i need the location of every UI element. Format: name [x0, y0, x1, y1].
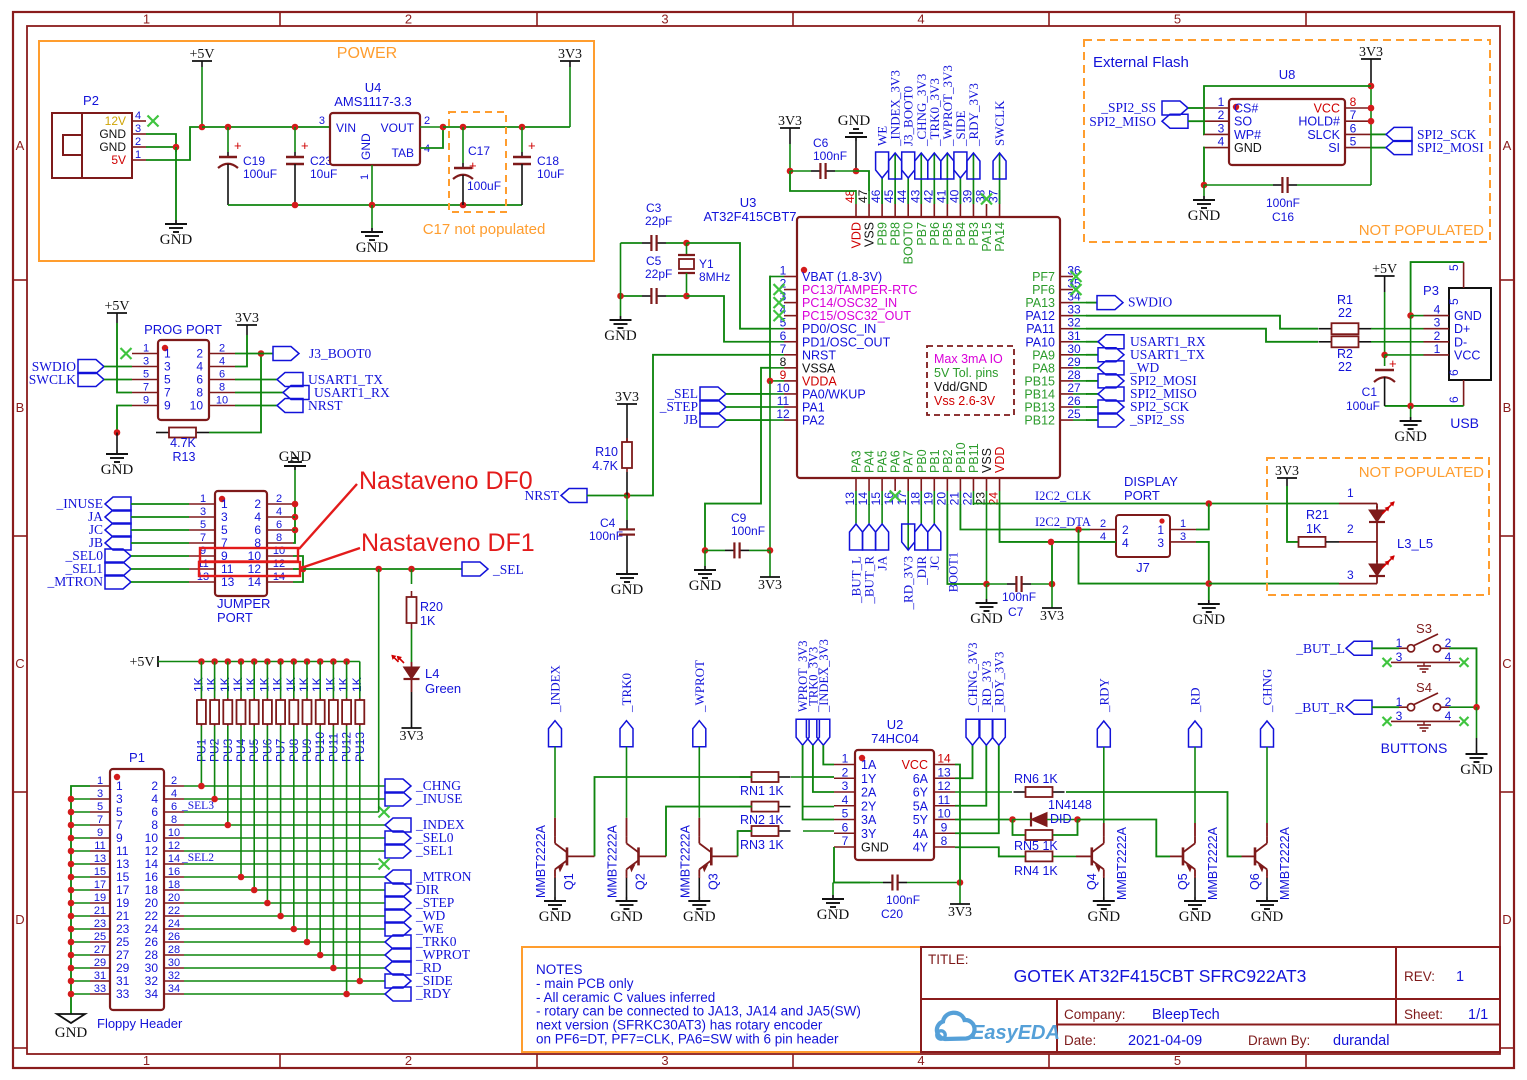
svg-text:27: 27: [94, 944, 106, 956]
svg-text:29: 29: [94, 957, 106, 969]
svg-text:NRST: NRST: [524, 488, 559, 503]
svg-text:2: 2: [171, 775, 177, 787]
svg-text:6: 6: [1350, 121, 1357, 135]
svg-text:R13: R13: [173, 450, 196, 464]
svg-text:5: 5: [200, 519, 206, 531]
svg-text:External Flash: External Flash: [1093, 54, 1189, 71]
svg-text:2A: 2A: [861, 786, 877, 800]
svg-text:6: 6: [842, 820, 849, 834]
svg-text:100uF: 100uF: [1346, 399, 1380, 413]
svg-text:PA15: PA15: [980, 222, 994, 252]
svg-text:17: 17: [94, 879, 106, 891]
svg-text:Q1: Q1: [562, 873, 576, 890]
svg-text:NRST: NRST: [308, 398, 343, 413]
svg-text:3: 3: [143, 356, 149, 368]
svg-text:AMS1117-3.3: AMS1117-3.3: [334, 94, 412, 109]
wire PROG pin 6 to USART1_TX flag: [235, 379, 277, 381]
svg-text:Q2: Q2: [634, 873, 648, 890]
resistor RN2 1K: [740, 806, 752, 808]
svg-text:4: 4: [842, 793, 849, 807]
svg-text:18: 18: [908, 492, 922, 506]
wire C5 to OSC_OUT pin 6: [687, 296, 772, 342]
wire RN1 to U2 pin 2 1Y: [791, 776, 834, 778]
U3 max ratings note box: [927, 346, 1014, 415]
3V3 under C20 node: [959, 883, 961, 905]
POWER section box: [39, 41, 594, 261]
svg-text:GND: GND: [99, 127, 126, 141]
wire P2 5V to +5V rail: [146, 127, 202, 160]
svg-text:SWCLK: SWCLK: [29, 372, 77, 387]
svg-text:3A: 3A: [861, 813, 877, 827]
svg-text:34: 34: [145, 987, 159, 1001]
svg-text:SO: SO: [1234, 115, 1252, 129]
svg-text:8: 8: [219, 382, 225, 394]
svg-text:MMBT2222A: MMBT2222A: [1206, 826, 1220, 900]
U3 right pins: [1060, 276, 1073, 278]
svg-text:10: 10: [273, 545, 285, 557]
svg-text:10uF: 10uF: [537, 167, 564, 181]
wire RN2 to Q2 base: [666, 807, 752, 857]
svg-text:1: 1: [135, 149, 141, 161]
svg-text:S4: S4: [1416, 680, 1432, 695]
connector J7: [1116, 515, 1170, 557]
svg-text:R20: R20: [420, 600, 443, 614]
svg-text:SPI2_MISO: SPI2_MISO: [1089, 114, 1156, 129]
svg-text:2: 2: [405, 12, 412, 27]
svg-text:VIN: VIN: [336, 121, 356, 135]
svg-text:P1: P1: [129, 750, 145, 765]
svg-text:5: 5: [97, 801, 103, 813]
svg-text:22: 22: [1338, 306, 1352, 320]
U4 GND pin wire down: [371, 165, 373, 205]
transistor Q1 MMBT2222A: [554, 818, 556, 837]
svg-text:3: 3: [661, 12, 668, 27]
svg-text:C7: C7: [1008, 605, 1024, 619]
svg-text:5: 5: [842, 807, 849, 821]
net flag SWCLK at pin 37: [999, 153, 1001, 204]
svg-text:_TRK0: _TRK0: [619, 673, 634, 713]
svg-text:GND: GND: [1460, 762, 1493, 778]
flags WPROT_3V3 TRK0_3V3 INDEX_3V3 above U2: [796, 719, 809, 745]
svg-text:GND: GND: [539, 909, 572, 925]
svg-text:durandal: durandal: [1333, 1033, 1389, 1049]
svg-text:VSS: VSS: [980, 448, 994, 473]
svg-text:JUMPER: JUMPER: [217, 596, 270, 611]
svg-text:15: 15: [94, 866, 106, 878]
svg-text:D: D: [1502, 912, 1511, 927]
svg-text:31: 31: [1067, 329, 1081, 343]
svg-text:VSS: VSS: [863, 222, 877, 247]
svg-text:5: 5: [1174, 12, 1181, 27]
no-connect X U3 pins 36,35: [1071, 271, 1082, 282]
svg-text:25: 25: [116, 935, 130, 949]
svg-text:Q6: Q6: [1248, 873, 1262, 890]
P1 right side net flags: [184, 785, 385, 787]
svg-text:31: 31: [94, 970, 106, 982]
wire GND pin 4: [1411, 315, 1424, 317]
svg-text:45: 45: [882, 189, 896, 203]
svg-text:7: 7: [842, 834, 849, 848]
svg-text:3V3: 3V3: [1275, 464, 1299, 479]
svg-text:1: 1: [200, 493, 206, 505]
svg-text:Green: Green: [425, 681, 461, 696]
svg-text:14: 14: [168, 853, 180, 865]
svg-text:15: 15: [869, 492, 883, 506]
svg-text:GND: GND: [356, 240, 389, 256]
svg-text:+5V: +5V: [1372, 262, 1397, 277]
svg-text:2: 2: [151, 779, 158, 793]
wire TRK0_3V3 to 2A: [813, 745, 834, 792]
svg-text:5: 5: [164, 373, 171, 387]
svg-text:8: 8: [196, 386, 203, 400]
wire _SEL down to P1 pin 6 row: [378, 569, 380, 812]
svg-text:J7: J7: [1136, 560, 1150, 575]
svg-text:PB6: PB6: [928, 222, 942, 246]
svg-text:16: 16: [145, 870, 159, 884]
LED L4: [411, 629, 413, 662]
svg-text:4: 4: [276, 506, 282, 518]
wire +5V to PROG pin 7: [117, 323, 132, 393]
svg-text:PD0/OSC_IN: PD0/OSC_IN: [802, 322, 876, 336]
svg-text:VBAT (1.8-3V): VBAT (1.8-3V): [802, 270, 882, 284]
resistor R21 1K: [1287, 486, 1299, 542]
wire PROG pin 10 to NRST flag: [235, 405, 277, 407]
wire RN1 to Q1 base: [595, 777, 753, 856]
NOTES box: [522, 947, 921, 1052]
P3 pin 5 shield top: [1463, 262, 1465, 288]
svg-text:GND: GND: [689, 578, 722, 594]
svg-text:C18: C18: [537, 154, 559, 168]
svg-text:Y1: Y1: [699, 257, 714, 271]
svg-text:Nastaveno DF0: Nastaveno DF0: [359, 467, 533, 495]
svg-text:32: 32: [145, 974, 159, 988]
U2 pin 13 6A to _CHNG_3V3 flag: [955, 745, 973, 778]
svg-text:7: 7: [116, 818, 123, 832]
svg-text:7: 7: [780, 342, 787, 356]
svg-text:PB1: PB1: [928, 449, 942, 473]
svg-text:13: 13: [937, 765, 951, 779]
svg-text:PB11: PB11: [967, 443, 981, 473]
wire VBAT pin 1 to 3V3 node: [770, 277, 771, 381]
svg-text:C: C: [1502, 656, 1511, 671]
svg-text:4: 4: [196, 360, 203, 374]
no-connect X on P2 pin 4: [148, 116, 159, 127]
svg-text:12: 12: [937, 779, 951, 793]
flags SPI2_SCK SPI2_MOSI: [1371, 133, 1386, 135]
svg-text:21: 21: [116, 909, 130, 923]
svg-text:42: 42: [921, 189, 935, 203]
svg-text:_BUT_R: _BUT_R: [1294, 700, 1345, 715]
svg-text:13: 13: [116, 857, 130, 871]
ground GND under P2: [175, 220, 177, 224]
svg-text:EasyEDA: EasyEDA: [971, 1022, 1060, 1044]
svg-text:3: 3: [1218, 121, 1225, 135]
svg-text:4: 4: [219, 356, 225, 368]
svg-text:2: 2: [1218, 108, 1225, 122]
svg-text:9: 9: [116, 831, 123, 845]
svg-text:U4: U4: [365, 80, 382, 95]
P3 pin 6 shield bottom: [1463, 380, 1465, 406]
svg-text:20: 20: [934, 492, 948, 506]
ground GND under U4: [371, 205, 373, 228]
svg-text:2: 2: [405, 1053, 412, 1068]
svg-text:11: 11: [94, 840, 105, 852]
svg-text:1K: 1K: [310, 677, 324, 692]
svg-text:PB14: PB14: [1024, 387, 1055, 401]
svg-text:2: 2: [276, 493, 282, 505]
net flag USART1_TX: [277, 373, 303, 387]
svg-text:46: 46: [869, 189, 883, 203]
svg-text:3: 3: [1157, 536, 1164, 550]
svg-text:8: 8: [171, 814, 177, 826]
svg-text:I2C2_DTA: I2C2_DTA: [1035, 515, 1091, 529]
svg-text:C19: C19: [243, 154, 265, 168]
svg-text:1: 1: [143, 1053, 150, 1068]
svg-text:3V3: 3V3: [558, 47, 582, 62]
svg-text:22: 22: [960, 492, 974, 506]
svg-text:1: 1: [1347, 486, 1354, 500]
svg-text:7: 7: [200, 532, 206, 544]
U4 output wires: [420, 126, 443, 128]
net flag SWDIO: [1086, 302, 1097, 304]
wire NRST pin 7 left: [627, 355, 771, 496]
svg-text:23: 23: [94, 918, 106, 930]
U2 GND pin 7 to C20 rail: [834, 847, 870, 883]
wire +5V rail to U4 VIN: [202, 126, 330, 128]
svg-text:PA5: PA5: [876, 450, 890, 473]
U2 pin 9 4A to _RDY_3V3 flag: [955, 745, 999, 833]
svg-text:1: 1: [97, 775, 103, 787]
svg-text:A: A: [16, 138, 25, 153]
svg-text:1: 1: [1218, 95, 1225, 109]
svg-text:HOLD#: HOLD#: [1298, 115, 1340, 129]
svg-text:+: +: [234, 138, 242, 153]
svg-text:100nF: 100nF: [731, 524, 765, 538]
svg-text:26: 26: [168, 931, 180, 943]
svg-text:RN3 1K: RN3 1K: [740, 838, 784, 852]
svg-text:C17 not populated: C17 not populated: [423, 221, 546, 238]
svg-text:D+: D+: [1454, 322, 1470, 336]
svg-text:13: 13: [94, 853, 106, 865]
svg-text:_RDY: _RDY: [1096, 677, 1111, 713]
U2 pin 11 5A to _RD_3V3 flag: [955, 745, 986, 806]
svg-text:Max 3mA IO: Max 3mA IO: [934, 352, 1003, 366]
resistor R2 22: [1319, 341, 1332, 343]
svg-text:5Y: 5Y: [913, 813, 929, 827]
svg-text:1K: 1K: [191, 677, 205, 692]
svg-text:4: 4: [171, 788, 177, 800]
wire INDEX_3V3 to 1A: [823, 745, 834, 764]
svg-text:8MHz: 8MHz: [699, 270, 730, 284]
svg-text:30: 30: [168, 957, 180, 969]
svg-text:TAB: TAB: [392, 146, 414, 160]
wire C3/C5 left to GND: [620, 243, 622, 296]
svg-text:2Y: 2Y: [861, 799, 877, 813]
svg-text:GND: GND: [1394, 429, 1427, 445]
svg-text:GND: GND: [1454, 309, 1482, 323]
svg-text:19: 19: [94, 892, 106, 904]
svg-text:3V3: 3V3: [948, 905, 972, 920]
svg-text:C5: C5: [646, 254, 662, 268]
svg-text:TITLE:: TITLE:: [928, 952, 969, 967]
resistor RN3 1K: [740, 830, 752, 832]
svg-text:14: 14: [145, 857, 159, 871]
U2 VCC pin 14 to 3V3 node: [955, 765, 960, 883]
svg-text:2: 2: [1434, 329, 1441, 343]
svg-text:8: 8: [780, 355, 787, 369]
svg-text:5: 5: [1174, 1053, 1181, 1068]
svg-text:J3_BOOT0: J3_BOOT0: [309, 346, 372, 361]
svg-text:14: 14: [856, 492, 870, 506]
svg-text:VOUT: VOUT: [381, 121, 415, 135]
ground GND flash: [1203, 185, 1205, 196]
svg-text:B: B: [16, 400, 25, 415]
svg-text:1N4148: 1N4148: [1048, 798, 1092, 812]
svg-text:2: 2: [135, 136, 141, 148]
svg-text:19: 19: [116, 896, 130, 910]
flag _RD_3V3 below U3 pin 17: [907, 504, 909, 550]
svg-text:MMBT2222A: MMBT2222A: [1278, 826, 1292, 900]
svg-text:74HC04: 74HC04: [871, 731, 919, 746]
svg-text:32: 32: [168, 970, 180, 982]
svg-text:5: 5: [1447, 264, 1461, 271]
wire _SEL net: [303, 568, 462, 570]
svg-text:6Y: 6Y: [913, 786, 929, 800]
svg-text:1: 1: [1157, 523, 1164, 537]
svg-text:BOOT1: BOOT1: [946, 552, 960, 592]
svg-text:4.7K: 4.7K: [592, 459, 618, 473]
svg-text:+5V: +5V: [189, 47, 214, 62]
svg-text:6: 6: [1447, 396, 1461, 403]
svg-text:PC14/OSC32_IN: PC14/OSC32_IN: [802, 296, 897, 310]
svg-text:PB8: PB8: [889, 222, 903, 246]
svg-text:20: 20: [145, 896, 159, 910]
svg-text:_SPI2_SS: _SPI2_SS: [1100, 100, 1156, 115]
wire J7 pin4 rail: [1051, 541, 1116, 543]
wire shield 5 to GND net: [1411, 262, 1464, 316]
svg-text:_BUT_L: _BUT_L: [1295, 641, 1345, 656]
svg-text:4: 4: [135, 110, 141, 122]
svg-text:Vdd/GND: Vdd/GND: [934, 380, 988, 394]
svg-text:MMBT2222A: MMBT2222A: [678, 824, 692, 898]
svg-text:PA10: PA10: [1025, 335, 1055, 349]
svg-text:_CHNG_3V3: _CHNG_3V3: [966, 643, 980, 713]
svg-text:1A: 1A: [861, 758, 877, 772]
svg-text:4: 4: [254, 510, 261, 524]
wire PROG pin 4 to 3V3: [235, 335, 247, 367]
svg-text:Q3: Q3: [706, 873, 720, 890]
svg-text:28: 28: [145, 948, 159, 962]
svg-text:22: 22: [145, 909, 159, 923]
svg-text:GND: GND: [101, 462, 134, 478]
svg-text:4: 4: [917, 12, 924, 27]
svg-text:_INDEX_3V3: _INDEX_3V3: [817, 639, 831, 713]
capacitor C7 100nF: [1007, 583, 1016, 585]
svg-text:NOTES: NOTES: [536, 962, 583, 977]
svg-text:PB7: PB7: [915, 222, 929, 246]
svg-text:12: 12: [168, 840, 180, 852]
resistor RN6 1K: [1014, 791, 1026, 793]
svg-text:U2: U2: [887, 717, 904, 732]
svg-text:1/1: 1/1: [1468, 1007, 1488, 1023]
wire PROG pin 8 to USART1_RX flag: [235, 392, 283, 394]
capacitor C1 100uF: [1384, 355, 1386, 366]
svg-text:16: 16: [168, 866, 180, 878]
svg-text:SWDIO: SWDIO: [1128, 295, 1172, 310]
svg-text:BleepTech: BleepTech: [1152, 1007, 1220, 1023]
svg-text:VDDA: VDDA: [802, 374, 837, 388]
wire GND to U3 VSS pin 47: [856, 171, 869, 191]
svg-text:10uF: 10uF: [310, 167, 337, 181]
svg-text:SPI2_MOSI: SPI2_MOSI: [1417, 140, 1484, 155]
svg-text:BUTTONS: BUTTONS: [1381, 740, 1448, 756]
svg-text:_RDY_3V3: _RDY_3V3: [992, 652, 1006, 713]
svg-text:C16: C16: [1272, 210, 1294, 224]
svg-text:100uF: 100uF: [467, 179, 501, 193]
svg-text:A: A: [1503, 138, 1512, 153]
svg-text:DID: DID: [1050, 812, 1072, 826]
svg-text:PF7: PF7: [1032, 270, 1055, 284]
svg-text:8: 8: [276, 532, 282, 544]
svg-text:23: 23: [116, 922, 130, 936]
svg-text:2: 2: [196, 347, 203, 361]
svg-text:3: 3: [200, 506, 206, 518]
svg-text:BOOT0: BOOT0: [902, 222, 916, 264]
svg-text:R2: R2: [1337, 347, 1353, 361]
svg-text:B: B: [1503, 400, 1512, 415]
svg-text:30: 30: [145, 961, 159, 975]
svg-text:GND: GND: [160, 232, 193, 248]
svg-text:_INUSE: _INUSE: [415, 791, 463, 806]
S4 unused pins 3-4: [1391, 720, 1460, 722]
wire R13 to J3_BOOT0 node: [209, 354, 261, 433]
svg-text:6: 6: [780, 329, 787, 343]
wire PROG pin 9 to GND: [117, 406, 132, 433]
net flag _SEL: [462, 562, 488, 576]
svg-text:_SEL: _SEL: [492, 562, 524, 577]
capacitor C16 100nF: [1273, 184, 1282, 186]
S3 unused pins 3-4: [1391, 661, 1460, 663]
ground GND under USB: [1410, 406, 1412, 417]
wire P2 GND pins to ground: [146, 134, 176, 152]
svg-text:Nastaveno DF1: Nastaveno DF1: [361, 529, 535, 557]
svg-text:VCC: VCC: [1454, 348, 1480, 362]
svg-text:GND: GND: [611, 582, 644, 598]
svg-text:21: 21: [94, 905, 106, 917]
svg-text:33: 33: [94, 983, 106, 995]
3V3 under C9: [769, 550, 771, 577]
svg-text:43: 43: [908, 189, 922, 203]
svg-text:10: 10: [168, 827, 180, 839]
capacitor C19: [227, 127, 229, 152]
svg-text:100nF: 100nF: [589, 529, 623, 543]
resistor RN1 1K: [740, 776, 752, 778]
svg-text:44: 44: [895, 189, 909, 203]
svg-text:3V3: 3V3: [1359, 45, 1383, 60]
wire J7 pin1 to I2C2_CLK: [1196, 504, 1209, 530]
svg-text:11: 11: [938, 793, 951, 807]
svg-text:3: 3: [661, 1053, 668, 1068]
svg-text:_MTRON: _MTRON: [46, 574, 103, 589]
svg-text:27: 27: [116, 948, 130, 962]
svg-text:1K: 1K: [284, 677, 298, 692]
svg-text:Vss 2.6-3V: Vss 2.6-3V: [934, 394, 996, 408]
svg-text:PC15/OSC32_OUT: PC15/OSC32_OUT: [802, 309, 911, 323]
svg-text:GND: GND: [359, 133, 373, 160]
svg-text:10: 10: [216, 395, 228, 407]
svg-text:GND: GND: [861, 841, 889, 855]
capacitor C6 100nF: [789, 144, 791, 171]
